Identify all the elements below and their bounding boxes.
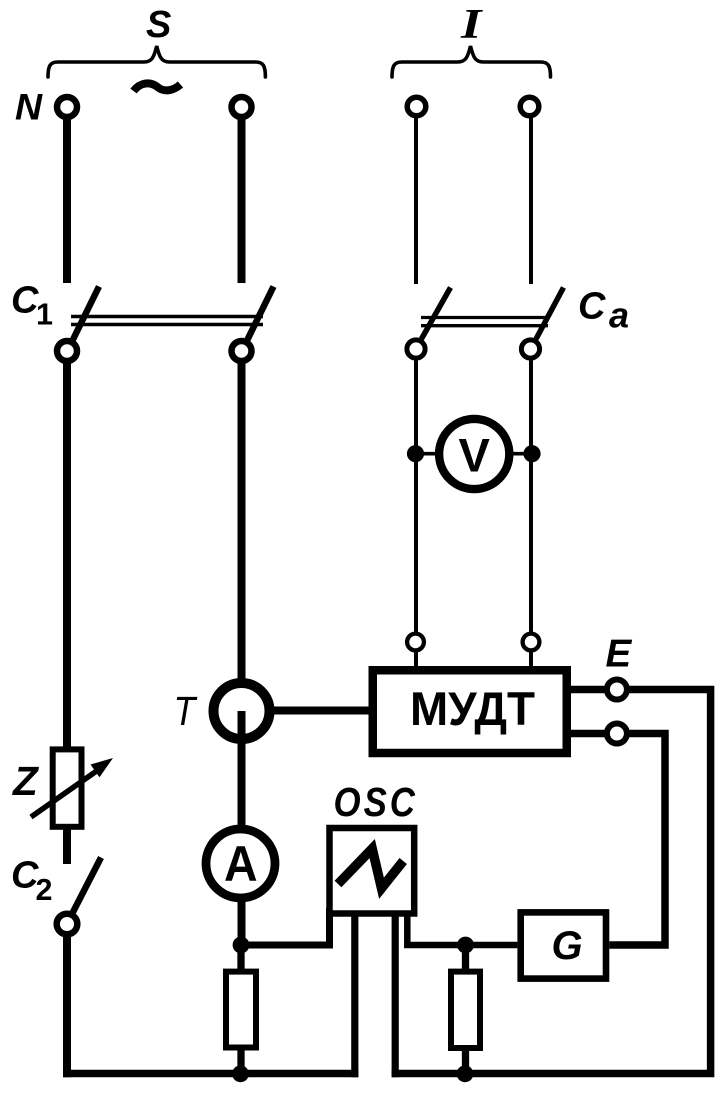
- svg-text:OSC: OSC: [334, 780, 418, 825]
- switch C1 right pivot: [232, 341, 252, 361]
- wire MUDT to E1 then right and down to bottom-right bus: [392, 690, 711, 1074]
- node left shunt to bus: [232, 1065, 249, 1082]
- svg-text:V: V: [459, 429, 491, 482]
- resistor right shunt: [451, 972, 480, 1048]
- wire middle column from C1 right pivot down to T: [238, 360, 246, 683]
- wire junction to left shunt resistor: [237, 945, 244, 972]
- AC source tilde: [134, 83, 181, 91]
- brace S: [48, 46, 265, 77]
- node junction ammeter/OSC: [233, 937, 250, 954]
- svg-text:T: T: [174, 689, 198, 735]
- Z arrow head: [91, 758, 114, 777]
- svg-text:S: S: [146, 4, 171, 46]
- wire MUDT to E2 then right and down to G: [571, 734, 665, 946]
- switch C2 pivot: [57, 914, 78, 935]
- wire OSC probe leg 2 down to right bottom bus: [392, 910, 399, 1077]
- wire left column from C1 pivot down to Z: [63, 360, 71, 747]
- wire top-left vertical from terminal N down to switch C1: [63, 118, 71, 283]
- terminal MUDT input right: [523, 634, 540, 651]
- switch Ca left arm: [421, 288, 450, 340]
- svg-text:Z: Z: [12, 758, 39, 804]
- wire through T and down to ammeter junction: [238, 711, 246, 945]
- svg-text:C: C: [11, 280, 39, 322]
- wire right circuit: I right pole down to Ca: [529, 116, 533, 284]
- wire from T to MUDT box: [265, 707, 369, 715]
- ammeter A: [206, 829, 275, 898]
- wire second vertical from terminal down to switch C1 right pole: [238, 118, 246, 283]
- terminal I right pole: [520, 97, 539, 116]
- switch Ca left pivot: [407, 340, 425, 358]
- brace I: [392, 46, 551, 77]
- terminal E1: [607, 680, 627, 700]
- Z variability arrow shaft: [31, 770, 98, 817]
- wire right circuit: I left pole down to Ca: [414, 116, 418, 284]
- box G: [521, 912, 606, 978]
- wire from Ca right pivot down to MUDT terminal: [529, 358, 533, 666]
- terminal S right pole: [232, 97, 252, 117]
- OSC waveform zigzag: [338, 849, 403, 889]
- svg-text:1: 1: [36, 298, 53, 332]
- terminal MUDT input left: [407, 634, 424, 651]
- wire OSC left leg down and left to ammeter junction: [241, 908, 330, 945]
- svg-text:a: a: [609, 295, 629, 336]
- box OSC: [330, 828, 415, 914]
- switch C1 right arm: [247, 287, 274, 341]
- node V right junction: [523, 445, 540, 462]
- svg-text:МУДТ: МУДТ: [410, 682, 535, 735]
- impedance Z box: [53, 749, 82, 826]
- svg-text:A: A: [224, 836, 258, 892]
- wire from Ca left pivot down to MUDT terminal: [414, 358, 418, 666]
- svg-text:E: E: [606, 633, 633, 676]
- transformer T: [214, 683, 270, 739]
- switch C2 arm: [73, 858, 102, 914]
- wire left shunt resistor to bottom bus: [237, 1048, 244, 1077]
- voltmeter V: [439, 419, 509, 489]
- terminal N (top-left): [57, 97, 77, 117]
- wire OSC right leg down and right to G input: [407, 908, 517, 945]
- switch Ca right arm: [536, 288, 564, 340]
- switch C1 left pivot: [57, 341, 77, 361]
- wire right shunt resistor to bottom bus: [462, 1049, 469, 1077]
- box MUDT: [373, 670, 567, 753]
- svg-text:G: G: [552, 924, 583, 968]
- svg-text:N: N: [15, 86, 43, 128]
- wire junction to right shunt resistor: [462, 945, 469, 972]
- wire through T lower half: [238, 711, 246, 745]
- resistor left shunt: [226, 972, 256, 1048]
- svg-text:C: C: [578, 285, 606, 327]
- switch Ca right pivot: [521, 340, 539, 358]
- switch C1 left arm: [73, 287, 100, 341]
- C1 gang linkage double line: [71, 315, 263, 319]
- wire bottom-left bus: [63, 1070, 358, 1078]
- wire voltmeter tap across: [416, 452, 533, 456]
- terminal I left pole: [407, 97, 426, 116]
- node junction G/right shunt: [457, 937, 474, 954]
- svg-text:I: I: [460, 2, 483, 48]
- wire from C2 pivot down to bottom bus: [63, 934, 71, 1077]
- svg-text:2: 2: [36, 873, 53, 907]
- Ca gang linkage double line: [421, 316, 548, 319]
- wire from Z bottom to C2 open contact: [63, 828, 71, 864]
- node V left junction: [407, 445, 424, 462]
- node right shunt to bus: [457, 1065, 474, 1082]
- wire OSC probe leg 1 down to left bottom bus: [351, 910, 358, 1077]
- terminal E2: [607, 724, 627, 744]
